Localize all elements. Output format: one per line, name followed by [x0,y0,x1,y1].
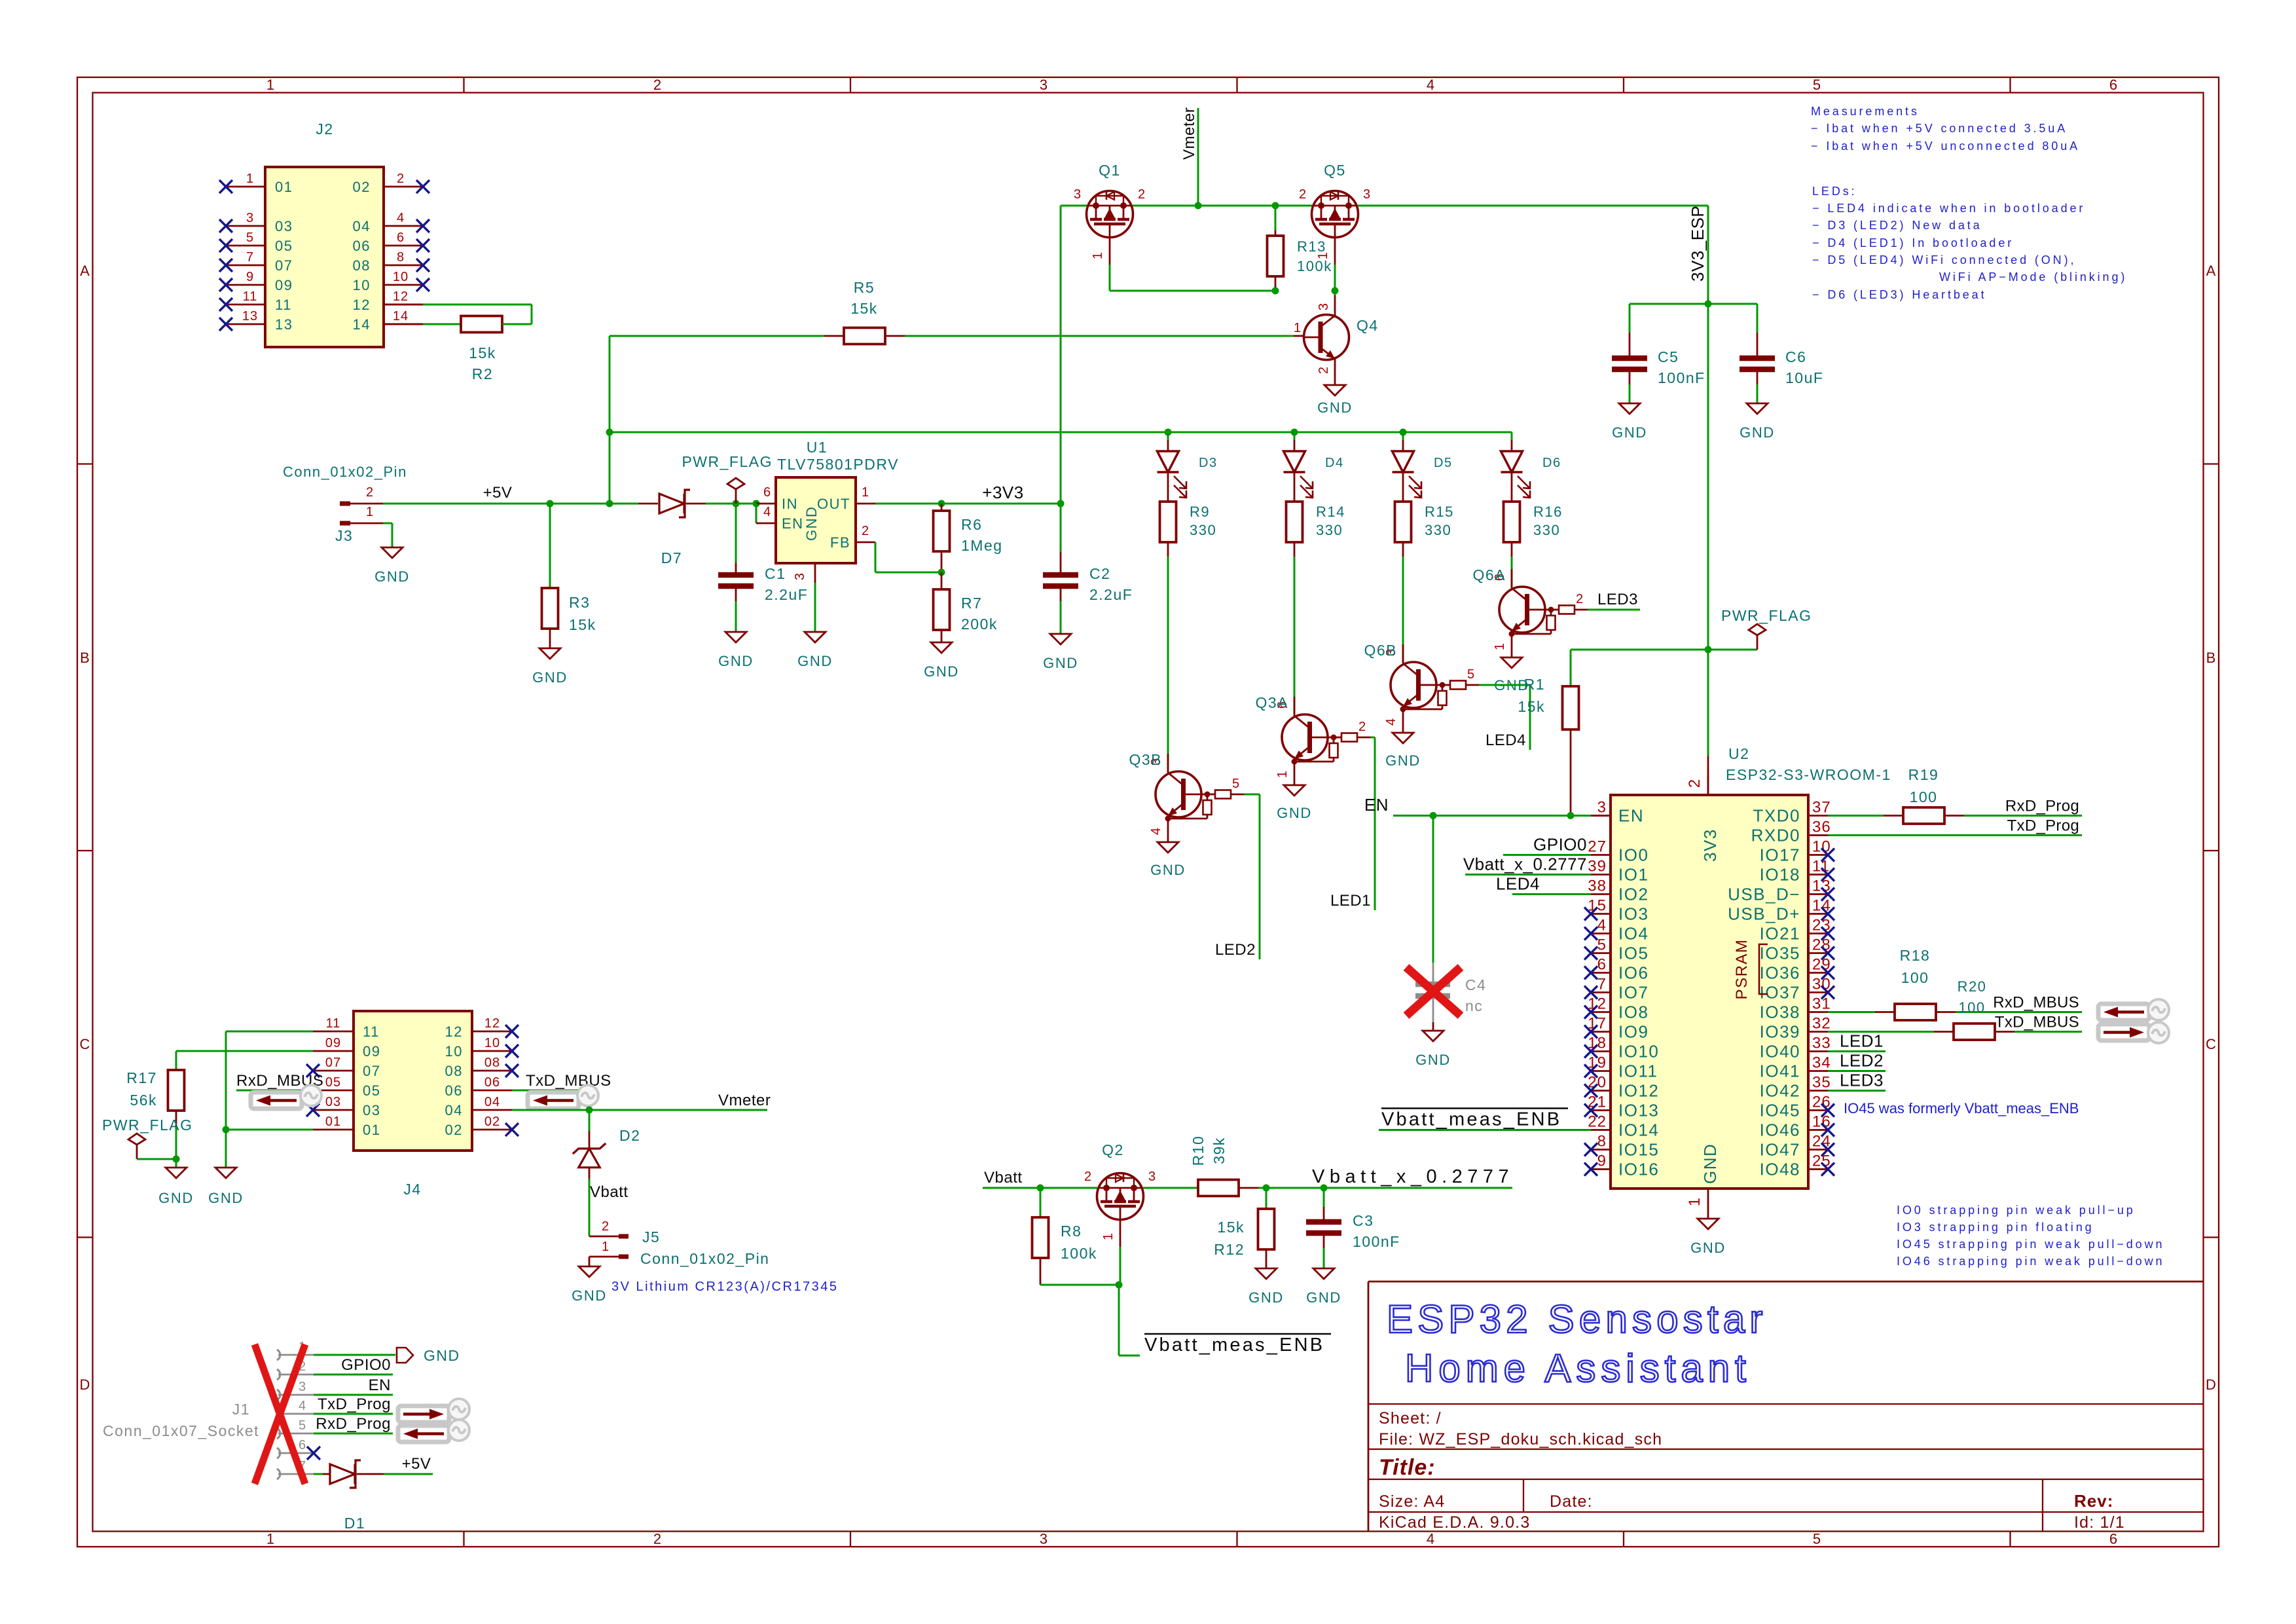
ground U2 [1690,1219,1726,1256]
svg-text:Id: 1/1: Id: 1/1 [2074,1513,2125,1532]
svg-text:14: 14 [1812,897,1831,915]
svg-text:R3: R3 [569,594,590,611]
C4 dnp cross [1406,967,1461,1016]
resistor R13 [1267,206,1284,291]
wire D6 corner [1511,432,1513,440]
svg-text:4: 4 [397,211,405,225]
D4 reference [1325,456,1344,470]
svg-text:24: 24 [1812,1133,1831,1151]
wire Q6B to LED4 [1479,685,1530,750]
note measurements [1811,105,2080,153]
Q2 reference [1102,1141,1124,1158]
wire 3V3ESP to U2 [1707,650,1709,795]
svg-text:EN: EN [1364,795,1389,815]
svg-text:330: 330 [1425,522,1451,538]
+5V wire [383,503,638,505]
junction D4 [1291,429,1298,436]
LED2 net label u2 [1840,1051,1884,1071]
svg-text:PSRAM: PSRAM [1733,939,1751,1000]
D3 reference [1199,456,1218,470]
wire R3 bottom [549,629,551,648]
svg-text:Date:: Date: [1550,1492,1593,1511]
ground C1 [718,632,754,669]
capacitor C3 [1306,1222,1341,1233]
wire C4 bottom [1432,1022,1434,1031]
R17 value 56k [130,1092,157,1109]
svg-text:GND: GND [1385,752,1421,769]
svg-text:C: C [2206,1036,2216,1052]
D5 reference [1434,456,1453,470]
resistor R10 [1198,1180,1258,1196]
PWR_FLAG label 2 [1721,607,1812,624]
R12 reference [1214,1241,1245,1258]
note IO45 [1844,1100,2079,1116]
ground R12 [1248,1268,1284,1306]
svg-text:IO38: IO38 [1760,1003,1800,1022]
wire Q4 emitter [1334,379,1336,385]
Q6B labels [1364,642,1475,726]
svg-text:10uF: 10uF [1785,369,1823,386]
kicad version / id [1379,1513,2125,1532]
Vmeter riser wire [1197,108,1199,206]
LED3 net label [1597,591,1638,608]
sheet/file text [1379,1409,1662,1449]
svg-text:19: 19 [1588,1054,1607,1072]
RxD_MBUS net label [1993,994,2079,1012]
svg-text:4: 4 [1384,718,1398,726]
LED D5 [1393,432,1422,498]
wire D2 top [589,1110,591,1149]
J1 reference [232,1401,250,1418]
svg-text:330: 330 [1533,522,1560,538]
svg-text:7: 7 [246,250,254,265]
svg-text:C6: C6 [1785,348,1806,365]
R19 wire left [1828,815,1884,817]
R16 value 330 [1533,522,1560,538]
svg-text:2: 2 [1084,1170,1092,1184]
GPIO0 net label j1 [341,1356,391,1374]
svg-text:J2: J2 [316,120,333,138]
R2 value 15k [469,344,496,361]
ground Q4 [1317,385,1353,416]
svg-text:1: 1 [862,485,869,500]
EN net label j1 [369,1376,391,1394]
TxD_MBUS wire [2014,1031,2082,1033]
J2 right pins 2-14 [353,172,429,333]
wire Q1 drain [1061,205,1087,207]
R3 reference [569,594,590,611]
connector J3 pin 2 [340,485,383,504]
C1 reference [765,565,786,582]
resistor R6 [934,504,950,572]
svg-text:11: 11 [363,1024,380,1040]
PWR_FLAG label 3 [102,1116,193,1134]
svg-text:LED3: LED3 [1597,591,1638,608]
svg-text:Q3A: Q3A [1255,694,1288,711]
svg-text:IO0: IO0 [1618,845,1649,865]
svg-text:15k: 15k [1518,698,1545,715]
wire C1 bottom [735,589,737,632]
svg-text:nc: nc [1465,997,1483,1014]
svg-text:11: 11 [326,1016,341,1031]
svg-text:C4: C4 [1465,976,1486,993]
R20 reference [1958,978,1987,995]
connector J3 pin 1 [340,505,383,523]
svg-text:GND: GND [374,568,410,585]
C5 reference [1658,348,1679,365]
LED D6 [1501,432,1531,498]
Q2 pin numbers [1084,1170,1156,1240]
svg-text:6: 6 [763,485,771,500]
wire R14 to Q3A [1294,542,1296,714]
R18 value 100 [1901,969,1929,986]
Vbatt wire [983,1187,1097,1189]
resistor R8 [1032,1188,1049,1285]
svg-text:PWR_FLAG: PWR_FLAG [682,453,773,470]
svg-text:IO13: IO13 [1618,1101,1659,1120]
svg-text:100: 100 [1910,788,1938,805]
wire C2 top [1060,504,1062,575]
RxD_Prog net label j1 [316,1415,391,1433]
svg-text:OUT: OUT [817,496,850,512]
J1 pin6 nc [307,1447,320,1460]
wire J4 RxD_MBUS [236,1090,313,1092]
Vmeter net label [1180,107,1198,160]
svg-text:IO9: IO9 [1618,1022,1649,1042]
svg-text:1: 1 [1091,251,1105,259]
svg-text:5: 5 [1467,667,1475,682]
svg-text:1Meg: 1Meg [961,537,1003,554]
svg-text:4: 4 [1427,1531,1434,1547]
TxD_Prog wire [1828,834,2082,836]
Vbatt_meas_ENB wire [1379,1129,1591,1131]
svg-text:D2: D2 [619,1127,640,1144]
svg-text:− D4 (LED1) In bootloader: − D4 (LED1) In bootloader [1812,236,2014,249]
R16 reference [1533,504,1563,520]
ground J4 [208,1168,244,1206]
svg-text:02: 02 [484,1115,500,1129]
R8 reference [1061,1223,1082,1240]
svg-text:13: 13 [275,316,293,333]
U2 pin 3V3 [1686,775,1720,862]
svg-text:GND: GND [924,663,959,680]
svg-text:C: C [80,1036,90,1052]
J1 dnp cross [255,1344,305,1484]
U1 value TLV75801PDRV [777,456,899,473]
svg-text:3: 3 [1363,187,1371,202]
TxD_Prog bubble j1 [448,1399,469,1420]
R14 reference [1316,504,1345,520]
wire EN to C4 [1432,816,1434,982]
R19 reference [1908,766,1939,783]
Vbatt_x_0.2777 net label u2 [1463,855,1587,874]
svg-text:38: 38 [1588,877,1607,895]
wire Q3A to LED1 [1370,737,1375,910]
svg-text:RxD_Prog: RxD_Prog [316,1415,391,1433]
svg-text:02: 02 [353,179,371,195]
svg-text:17: 17 [1588,1015,1607,1033]
U2 value ESP32-S3-WROOM-1 [1726,766,1891,783]
svg-text:TxD_MBUS: TxD_MBUS [1995,1014,2079,1031]
svg-text:2: 2 [366,485,374,500]
svg-text:1: 1 [1493,642,1507,650]
svg-text:3: 3 [1317,303,1331,310]
svg-text:GND: GND [1612,424,1647,441]
svg-text:33: 33 [1812,1035,1831,1052]
R13 reference [1297,238,1326,255]
svg-text:5: 5 [299,1418,306,1433]
ground Q3A [1277,785,1312,821]
wire J4 pin09 [176,1051,313,1070]
svg-text:GND: GND [1248,1289,1284,1306]
RxD_Prog net label [2005,798,2079,815]
resistor R14 [1286,490,1303,542]
svg-text:GND: GND [1277,805,1312,821]
global label GND [397,1347,460,1364]
svg-text:+5V: +5V [402,1455,431,1473]
svg-text:05: 05 [325,1075,341,1090]
svg-text:6: 6 [299,1438,306,1452]
svg-text:28: 28 [1812,936,1831,954]
RxD_Prog wire [1964,815,2082,817]
wire R5 to Q4 base [905,335,1294,337]
R1 reference [1524,676,1545,693]
svg-text:− LED4 indicate when in bootlo: − LED4 indicate when in bootloader [1812,202,2085,215]
capacitor C6 [1740,358,1775,369]
D7 reference [661,549,682,566]
connector J2 body [265,167,384,347]
svg-text:TxD_Prog: TxD_Prog [318,1395,391,1413]
svg-text:GND: GND [424,1347,460,1364]
svg-text:IO37: IO37 [1760,983,1800,1003]
+3V3 net label [982,483,1023,502]
svg-text:C3: C3 [1353,1212,1374,1229]
J3 reference [335,527,353,544]
note LEDs [1812,185,2127,301]
svg-text:Size: A4: Size: A4 [1379,1492,1445,1511]
Vmeter net label j4 [718,1092,771,1109]
svg-text:FB: FB [830,534,850,551]
svg-text:08: 08 [484,1056,500,1070]
svg-text:D7: D7 [661,549,682,566]
svg-text:1: 1 [1686,1197,1704,1206]
D2 reference [619,1127,640,1144]
svg-text:Q3B: Q3B [1129,751,1162,768]
size/date row [1379,1491,2113,1511]
R12 value 15k [1217,1219,1245,1236]
svg-text:4: 4 [1149,827,1163,835]
svg-text:R6: R6 [961,516,982,533]
wire R17 gnd [175,1159,177,1168]
LED4 label wire [1512,893,1591,895]
R17 reference [126,1069,157,1086]
svg-text:USB_D+: USB_D+ [1728,904,1800,924]
RxD_MBUS net label j4 [236,1072,323,1090]
svg-text:Q2: Q2 [1102,1141,1124,1158]
svg-text:Title:: Title: [1379,1455,1436,1480]
wire J1 pin4 TxD_Prog [314,1413,393,1415]
power flag 3V3_ESP [1749,624,1766,650]
ground Q6B [1385,733,1421,769]
svg-text:06: 06 [484,1075,500,1090]
svg-text:R12: R12 [1214,1241,1245,1258]
U1 reference [807,439,828,456]
wire R16 to Q6A [1511,542,1513,587]
svg-text:1: 1 [246,172,254,186]
svg-text:04: 04 [445,1102,463,1118]
LED anode rail [610,432,1512,434]
svg-text:07: 07 [275,257,293,274]
svg-text:IO2: IO2 [1618,885,1649,904]
svg-text:100: 100 [1901,969,1929,986]
wire J1 pin2 GPIO0 [314,1374,393,1376]
svg-text:05: 05 [363,1082,380,1099]
svg-text:J3: J3 [335,527,353,544]
LED1 net label u2 [1840,1031,1884,1051]
regulator U1 body [776,477,856,563]
LED D3 [1157,432,1187,498]
J2 reference [316,120,333,138]
wire Q1 to +3V3 riser [1060,206,1062,504]
resistor R2 [384,316,532,333]
svg-text:2: 2 [1299,187,1307,202]
junction R6 top [938,500,945,507]
svg-text:LED4: LED4 [1485,731,1526,749]
svg-text:08: 08 [445,1063,463,1079]
svg-text:D3: D3 [1199,456,1218,470]
svg-text:Measurements: Measurements [1811,105,1920,118]
svg-text:Rev:: Rev: [2074,1491,2113,1511]
U1 pin IN [756,485,798,512]
wire R3 top [549,504,551,588]
wire C6 bottom [1757,372,1758,403]
R20 wire left [1828,1031,1934,1033]
svg-text:20: 20 [1588,1074,1607,1092]
svg-text:1: 1 [366,505,374,519]
junction D2 [586,1107,593,1114]
resistor R7 [934,572,950,642]
svg-text:6: 6 [1597,956,1607,974]
C4 reference [1465,976,1486,993]
ground Q3B [1150,842,1186,878]
svg-text:3: 3 [246,211,254,225]
wire J1 pin7 [314,1473,323,1475]
Q3B labels [1129,751,1240,835]
svg-text:IO15: IO15 [1618,1140,1659,1160]
svg-text:18: 18 [1588,1035,1607,1052]
wire D7 to U1 [706,503,756,505]
wire Q2 drain right [1143,1187,1198,1189]
svg-text:10: 10 [445,1043,463,1060]
svg-text:GND: GND [158,1190,194,1206]
svg-text:IO21: IO21 [1760,924,1800,944]
svg-text:23: 23 [1812,917,1831,934]
svg-text:− D6 (LED3) Heartbeat: − D6 (LED3) Heartbeat [1812,288,1987,301]
Title: field [1379,1455,1436,1480]
svg-text:IO17: IO17 [1760,845,1800,865]
svg-text:5: 5 [1813,77,1821,93]
svg-text:10: 10 [484,1036,500,1050]
3V3_ESP net label [1688,206,1707,282]
svg-text:32: 32 [1812,1015,1831,1033]
junction Q2 gate [1116,1282,1123,1289]
svg-text:12: 12 [1588,995,1607,1013]
svg-text:D4: D4 [1325,456,1344,470]
svg-text:ESP32 Sensostar: ESP32 Sensostar [1387,1297,1768,1341]
svg-text:LED1: LED1 [1330,892,1371,910]
C6 reference [1785,348,1806,365]
wire pwrflag [137,1158,176,1160]
svg-text:07: 07 [363,1063,380,1079]
TxD_MBUS net label [1995,1014,2079,1031]
svg-text:100nF: 100nF [1353,1233,1400,1250]
svg-text:Q5: Q5 [1324,162,1346,179]
diode D1 [323,1460,384,1488]
svg-text:IO16: IO16 [1618,1160,1659,1179]
svg-text:D1: D1 [344,1515,365,1532]
LED4 net label u2 [1496,874,1540,894]
capacitor C2 [1043,575,1078,586]
svg-text:GND: GND [1740,424,1775,441]
svg-text:3V Lithium CR123(A)/CR17345: 3V Lithium CR123(A)/CR17345 [611,1280,839,1294]
svg-text:Q6A: Q6A [1472,566,1506,583]
svg-text:7: 7 [1597,976,1607,993]
LED3 net label u2 [1840,1071,1884,1090]
U2 pin GND bottom [1686,1143,1720,1219]
junction R8 top [1037,1185,1044,1192]
svg-text:GND: GND [1306,1289,1341,1306]
Q5 pin numbers [1299,187,1371,259]
TxD_Prog net label [2007,817,2079,835]
svg-text:2: 2 [1576,592,1584,606]
svg-text:2: 2 [1138,187,1146,202]
svg-text:Vmeter: Vmeter [718,1092,771,1109]
svg-text:IO14: IO14 [1618,1120,1659,1140]
svg-text:09: 09 [325,1036,341,1050]
svg-text:R7: R7 [961,595,982,612]
connector J5 pin 2 [589,1219,629,1236]
svg-text:1: 1 [602,1240,610,1254]
resistor R16 [1504,490,1520,542]
svg-text:EN: EN [782,515,804,532]
R5 reference [854,279,875,296]
svg-text:R15: R15 [1425,504,1454,520]
svg-text:R9: R9 [1190,504,1210,520]
C2 reference [1089,565,1110,582]
svg-text:IO36: IO36 [1760,963,1800,983]
+3V3 wire [875,503,1061,505]
svg-text:100k: 100k [1297,258,1332,274]
transistor Q3B [1156,754,1244,842]
svg-text:3V3: 3V3 [1700,828,1720,862]
R15 reference [1425,504,1454,520]
transistor Q3A [1282,697,1370,785]
svg-text:IO46 strapping pin weak pull−d: IO46 strapping pin weak pull−down [1897,1255,2164,1268]
Q1 pin numbers [1074,187,1146,259]
wire Q5 source to 3V3ESP [1358,205,1708,207]
J4 left pins [313,1016,380,1138]
svg-text:09: 09 [275,277,293,293]
svg-text:R19: R19 [1908,766,1939,783]
svg-text:PWR_FLAG: PWR_FLAG [1721,607,1812,624]
C2 value 2.2uF [1089,586,1133,603]
resistor R5 [824,328,905,344]
svg-text:35: 35 [1812,1074,1831,1092]
LED2 net label [1215,941,1256,959]
svg-text:100: 100 [1958,999,1985,1016]
junction 3V3ESP R1 [1705,646,1712,654]
junction 3V3ESP caps [1705,301,1712,308]
